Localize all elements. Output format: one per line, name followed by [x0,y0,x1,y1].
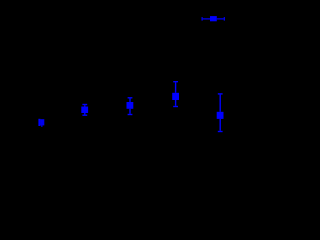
lead [220,119,221,131]
plate bar [38,119,40,126]
resistor R4 (vertical) [172,81,179,107]
lead [175,82,176,92]
resistor R3 (vertical) [127,97,134,115]
resistor R1 (horizontal, top right) [202,16,225,21]
body box [217,112,224,119]
pin 1 tick [128,97,133,98]
lead [84,105,85,106]
body box [81,107,88,114]
pin 2 tick [224,17,225,21]
body box [172,93,179,100]
pin 1 tick [202,17,203,21]
wire lead left [203,18,211,19]
lead [220,95,221,112]
body blob [40,119,44,125]
resistor R5 (vertical, long leads) [217,93,224,132]
lead [129,109,130,114]
pin 1 tick [82,104,87,105]
component B (small part, lower left) [38,119,44,127]
resistor R2 (vertical) [81,104,88,116]
pin 2 tick [173,106,178,107]
lead [84,113,85,115]
pin 2 tick [128,114,133,115]
lead [129,99,130,103]
pin 2 tick [82,115,87,116]
wire lead right [217,18,224,19]
body box [127,102,134,109]
body box [210,16,217,21]
lead [175,100,176,106]
pin 1 tick [218,93,223,94]
pin 2 tick [218,131,223,132]
pin 1 tick [173,81,178,82]
pin nub [41,125,43,126]
